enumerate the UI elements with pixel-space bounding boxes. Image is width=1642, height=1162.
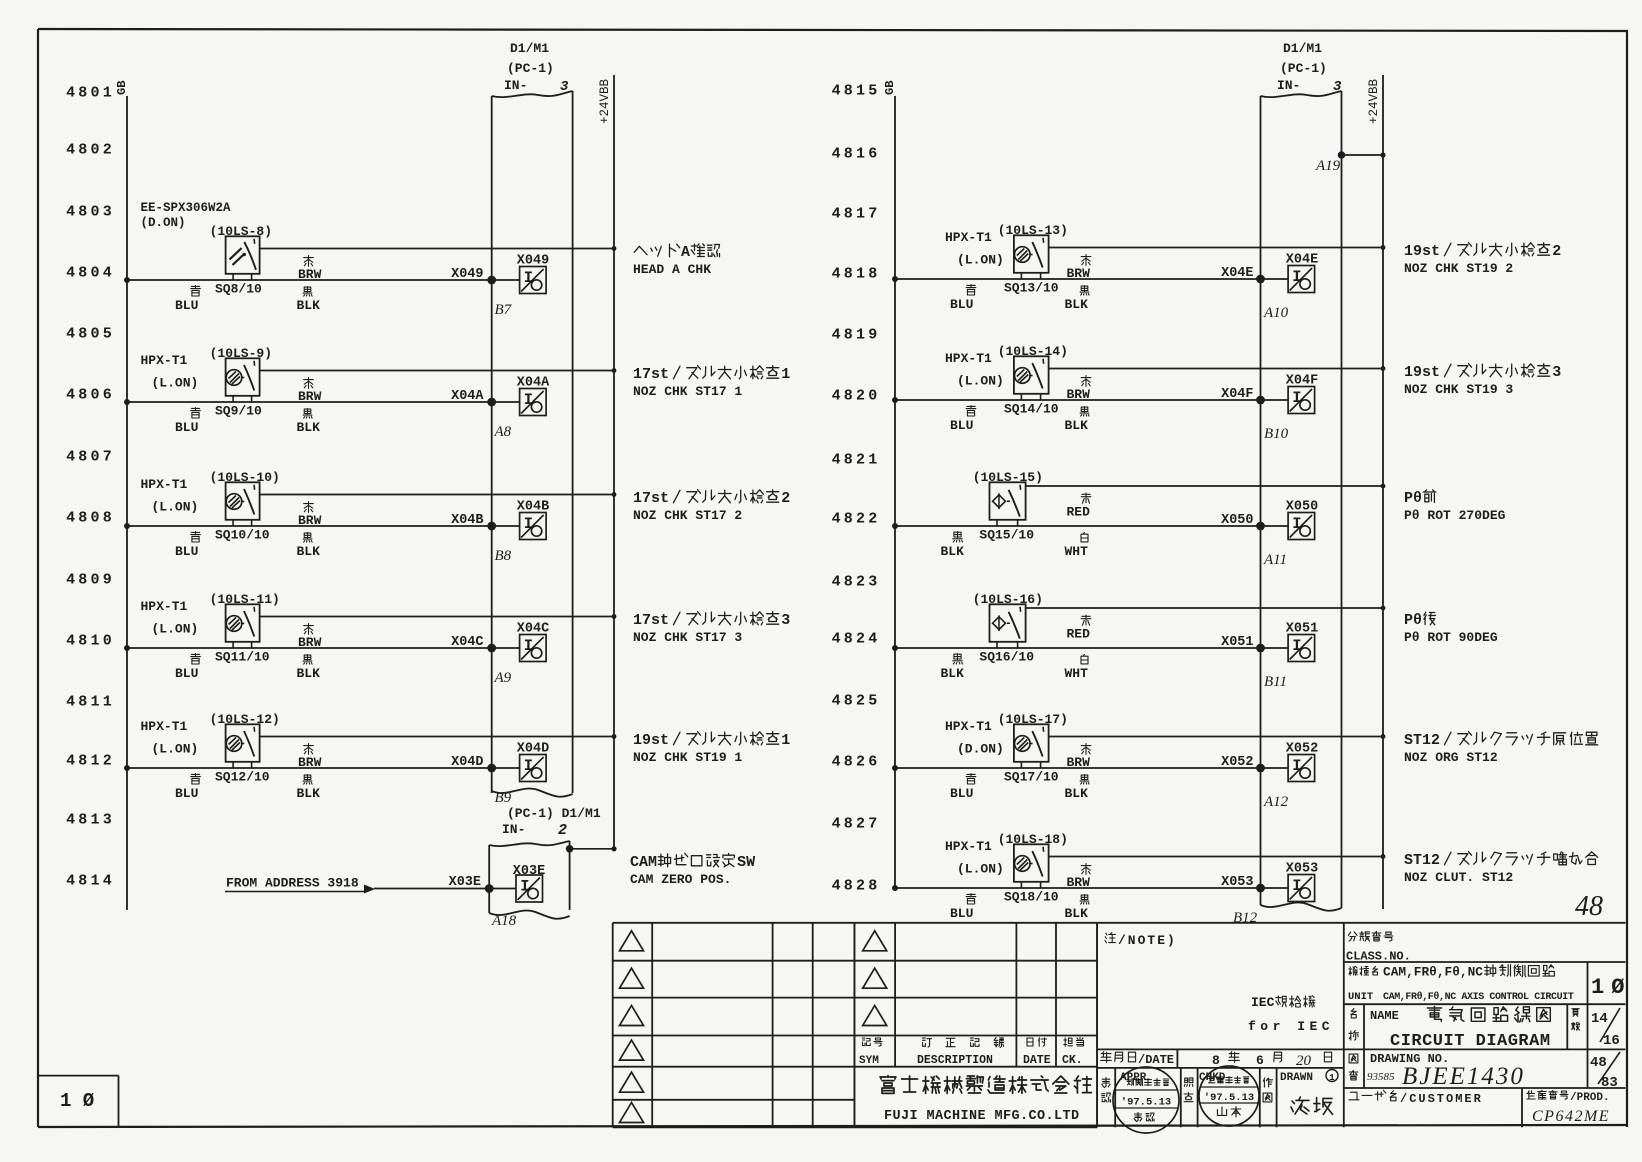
svg-text:HPX-T1: HPX-T1 [141,353,188,368]
label sensor model HPX-T1 [141,353,199,391]
label SQ16/10 [979,650,1034,665]
svg-text:3: 3 [1333,79,1342,95]
approval stamp CHKD '97.5.13 山本 [1199,1066,1259,1126]
svg-text:4812: 4812 [66,753,115,770]
svg-text:(L.ON): (L.ON) [152,376,199,391]
svg-text:4805: 4805 [66,326,115,343]
label wire colour BRW (top) [298,378,322,404]
label I/O X051 [1286,622,1318,637]
note box 注/NOTE [1097,923,1344,1128]
svg-text:WHT: WHT [1065,666,1089,681]
svg-text:(D.ON): (D.ON) [141,216,186,230]
svg-text:4819: 4819 [832,327,881,344]
svg-text:(10LS-11): (10LS-11) [210,592,280,607]
svg-text:/PROD.: /PROD. [1570,1092,1610,1104]
label SQ11/10 [215,650,270,665]
label function: NOZ CHK ST17 1 [633,366,790,399]
pin A12 [1263,794,1289,810]
label (10LS-13) [998,223,1068,238]
wire: rung 4818 (X04E) [892,275,1288,284]
svg-text:4827: 4827 [832,816,881,833]
svg-text:NOZ CHK ST17 1: NOZ CHK ST17 1 [633,384,742,399]
pin B10 [1264,426,1289,442]
label I/O X03E [513,864,545,879]
node: line number 4804 [66,265,115,282]
customer box ユーザ名/CUSTOMER | 生産番号/PROD. CP642ME [1349,1088,1610,1127]
svg-text:CP642ME: CP642ME [1532,1108,1610,1125]
label I/O X04B [517,500,549,515]
label I/O X04C [517,622,549,637]
wire: rung 4826 (X052) [892,764,1288,773]
I/O point X04D [520,755,547,782]
label wire colour BLU (bus side) [175,286,200,313]
label wire X04C [451,635,483,650]
svg-text:16: 16 [1603,1033,1620,1049]
label IEC規格機 for IEC [1248,995,1334,1034]
connector label (PC-1) D1/M1 IN- 2 [502,806,601,839]
pin A19 [1315,158,1341,174]
sensor SQ14/10 (10LS-14) (HPX-T1) [1014,356,1049,400]
svg-text:NOZ CLUT. ST12: NOZ CLUT. ST12 [1404,870,1513,885]
node: line number 4810 [66,633,115,650]
label sensor model HPX-T1 [945,719,1004,757]
svg-text:CAM ZERO POS.: CAM ZERO POS. [630,872,731,887]
svg-text:CIRCUIT DIAGRAM: CIRCUIT DIAGRAM [1390,1032,1551,1051]
svg-text:NOZ CHK ST17 3: NOZ CHK ST17 3 [633,630,742,645]
wire: rung 4824 (X051) [892,644,1288,653]
node: line number 4803 [66,204,115,221]
I/O point X049 [520,267,547,294]
pin A11 [1263,552,1287,568]
label wire colour BLK (bottom) [297,409,321,435]
svg-text:X053: X053 [1221,875,1253,890]
label wire colour WHT (bottom) [1065,533,1089,560]
wire: SQ14/10 output to +24VBB rail [1049,366,1386,371]
connector label D1/M1 (PC-1) IN- 3 (left) [504,41,569,95]
approval stamp APPR '97.5.13 [1113,1067,1179,1133]
svg-text:BLU: BLU [175,298,198,313]
svg-text:X053: X053 [1286,862,1318,877]
svg-text:'97.5.13: '97.5.13 [1204,1092,1254,1104]
wire: rung 4810 (X04C) [124,644,520,653]
svg-text:B8: B8 [495,548,512,564]
node: line number 4813 [66,812,115,829]
label sensor model HPX-T1 [141,477,199,515]
svg-text:A9: A9 [494,670,512,686]
svg-text:3: 3 [1552,364,1561,381]
svg-text:SQ12/10: SQ12/10 [215,770,270,785]
svg-text:X052: X052 [1286,742,1318,757]
I/O point X052 [1288,755,1315,782]
svg-text:19st: 19st [633,732,669,749]
node: line number 4825 [832,693,881,710]
label sensor model HPX-T1 [141,599,199,637]
sensor SQ15/10 (10LS-15) (prox switch) [990,482,1026,526]
svg-text:A11: A11 [1263,552,1287,568]
label wire colour BRW (top) [1067,255,1091,281]
svg-text:14: 14 [1591,1011,1608,1027]
node: line number 4817 [832,206,881,223]
wire: left GB bus [126,96,128,910]
svg-text:RED: RED [1067,627,1091,642]
svg-text:4825: 4825 [832,693,881,710]
wire: SQ15/10 output to +24VBB rail [1026,484,1386,489]
svg-text:4817: 4817 [832,206,881,223]
svg-text:X04A: X04A [451,389,484,404]
label sensor model HPX-T1 [141,719,199,757]
svg-text:B9: B9 [495,790,512,806]
svg-text:(L.ON): (L.ON) [152,622,199,637]
label wire colour BRW (top) [1067,376,1091,402]
svg-text:A12: A12 [1263,794,1289,810]
svg-text:4814: 4814 [66,873,115,890]
I/O point X051 [1288,635,1315,662]
node: line number 4806 [66,387,115,404]
svg-text:(D.ON): (D.ON) [957,742,1004,757]
svg-text:BRW: BRW [298,635,322,650]
svg-text:BRW: BRW [1067,387,1091,402]
label wire X049 [451,267,483,282]
label wire colour BLK (bus side) [941,532,965,559]
svg-text:4804: 4804 [66,265,115,282]
wire: SQ8/10 output to +24VBB rail [260,246,617,251]
label wire colour BLU (bus side) [950,406,976,433]
svg-text:4803: 4803 [66,204,115,221]
wire: A19 feed, +24VBB to connector right edge [1338,151,1386,159]
node: line number 4821 [832,452,881,469]
svg-text:(L.ON): (L.ON) [152,500,199,515]
label wire colour BLU (bus side) [175,654,200,681]
svg-text:48: 48 [1575,891,1603,922]
svg-text:+24VBB: +24VBB [598,78,612,124]
svg-text:GB: GB [883,81,897,95]
svg-text:SQ15/10: SQ15/10 [979,528,1034,543]
wire: rung 4822 (X050) [892,522,1288,531]
svg-text:NAME: NAME [1370,1009,1399,1023]
svg-text:X04E: X04E [1286,253,1318,268]
svg-text:CAM,FRθ,Fθ,NC: CAM,FRθ,Fθ,NC [1383,965,1483,980]
svg-text:BLU: BLU [175,420,198,435]
connector D1/M1 (PC-1) IN-2 lower-left column body [489,841,569,919]
node: line number 4822 [832,511,881,528]
svg-text:DESCRIPTION: DESCRIPTION [917,1054,993,1067]
label function: NOZ CHK ST19 2 [1404,243,1561,276]
label sensor model HPX-T1 [945,351,1004,389]
label SQ8/10 [215,282,262,297]
svg-text:3: 3 [781,612,790,629]
svg-text:BLK: BLK [297,666,321,681]
svg-text:4822: 4822 [832,511,881,528]
svg-text:BRW: BRW [298,513,322,528]
label function: NOZ ORG ST12 [1404,732,1598,765]
label sensor model EE-SPX306W2A [141,201,232,230]
svg-text:BLK: BLK [941,666,965,681]
svg-text:SW: SW [737,854,755,871]
svg-text:NOZ CHK ST17 2: NOZ CHK ST17 2 [633,508,742,523]
wire: rung 4804 (X049) [124,276,520,285]
label wire colour BLU (bus side) [950,774,976,801]
node: line number 4812 [66,753,115,770]
label I/O X049 [517,254,549,269]
node: line number 4828 [832,878,881,895]
svg-text:4824: 4824 [832,631,881,648]
svg-text:(10LS-12): (10LS-12) [210,712,280,727]
svg-text:4816: 4816 [832,146,881,163]
label wire X050 [1221,513,1253,528]
revision triangles left column [620,931,644,1123]
sensor SQ17/10 (10LS-17) (HPX-T1) [1014,724,1049,768]
svg-text:BLK: BLK [297,786,321,801]
svg-text:8: 8 [1212,1053,1220,1068]
svg-text:17st: 17st [633,612,669,629]
svg-text:(PC-1) D1/M1: (PC-1) D1/M1 [507,806,601,821]
svg-text:20: 20 [1296,1053,1312,1069]
svg-text:X051: X051 [1221,635,1253,650]
svg-text:HPX-T1: HPX-T1 [945,351,992,366]
label function: Pθ ROT 90DEG [1404,612,1498,645]
label wire colour WHT (bottom) [1065,655,1089,682]
wire: +24VBB feed to lower connector, node at (569.6,849) [566,845,617,853]
svg-text:CK.: CK. [1062,1054,1083,1067]
label I/O X04F [1286,374,1318,389]
svg-text:HPX-T1: HPX-T1 [141,477,188,492]
svg-text:Pθ: Pθ [1404,490,1422,507]
label sensor model HPX-T1 [945,230,1004,268]
label wire X04A [451,389,484,404]
approval row 承認/照査/作図 + stamps [1102,1068,1338,1127]
svg-text:WHT: WHT [1065,544,1089,559]
node: line number 4816 [832,146,881,163]
wire: SQ16/10 output to +24VBB rail [1026,606,1386,611]
svg-text:B7: B7 [495,302,513,318]
label (10LS-8) [210,224,272,239]
svg-text:48: 48 [1590,1055,1607,1071]
pin B7 [495,302,513,318]
pin A10 [1263,305,1289,321]
label wire colour RED (top) [1067,493,1091,519]
label FROM ADDRESS 3918 with arrow [225,876,375,894]
svg-text:1: 1 [781,366,790,383]
label wire colour BLK (bottom) [297,287,321,313]
svg-text:SQ9/10: SQ9/10 [215,404,262,419]
label wire colour BLK (bottom) [297,775,321,802]
label I/O X053 [1286,862,1318,877]
svg-text:BLK: BLK [1065,297,1089,312]
svg-text:X049: X049 [451,267,483,282]
label wire X03E [449,875,481,890]
wire: SQ10/10 output to +24VBB rail [260,492,617,497]
svg-text:3: 3 [560,79,569,95]
svg-text:SQ17/10: SQ17/10 [1004,770,1059,785]
svg-text:4806: 4806 [66,387,115,404]
label SQ15/10 [979,528,1034,543]
label wire colour BLK (bottom) [1065,895,1090,922]
svg-text:BRW: BRW [1067,875,1091,890]
svg-text:DRAWN: DRAWN [1280,1072,1313,1084]
svg-text:(L.ON): (L.ON) [957,862,1004,877]
handwritten sheet number 48 [1575,891,1603,922]
node: line number 4824 [832,631,881,648]
svg-text:A8: A8 [494,424,512,440]
svg-text:(10LS-15): (10LS-15) [973,470,1043,485]
I/O point X04B [520,513,547,540]
pin B8 [495,548,512,564]
label wire colour BRW (top) [298,624,322,650]
svg-text:4809: 4809 [66,572,115,589]
svg-text:(10LS-14): (10LS-14) [998,344,1068,359]
svg-text:BLK: BLK [297,544,321,559]
label wire colour BLU (bus side) [175,532,200,559]
svg-text:BLU: BLU [950,297,973,312]
svg-text:A10: A10 [1263,305,1289,321]
label wire colour BRW (top) [1067,744,1091,770]
I/O point X03E [516,875,543,902]
label (10LS-17) [998,712,1068,727]
svg-text:X050: X050 [1221,513,1253,528]
svg-text:(10LS-13): (10LS-13) [998,223,1068,238]
node: line number 4818 [832,266,881,283]
svg-text:2: 2 [781,490,790,507]
svg-text:(PC-1): (PC-1) [1280,61,1327,76]
node: line number 4809 [66,572,115,589]
node GB label (left) [115,81,129,95]
label function: NOZ CHK ST17 3 [633,612,790,645]
label SQ12/10 [215,770,270,785]
unit box 機種名 CAM,FR0,F0,NC axis control circuit | sheet 10 [1344,962,1632,1004]
node: line number 4815 [832,83,881,100]
pin A8 [494,424,512,440]
node: line number 4823 [832,574,881,591]
svg-text:CLASS.NO.: CLASS.NO. [1346,950,1411,964]
svg-text:D1/M1: D1/M1 [510,41,549,56]
svg-text:DATE: DATE [1023,1054,1051,1067]
wire: rung 4808 (X04B) [124,522,520,531]
label SQ9/10 [215,404,262,419]
label function: CAM ZERO POS. [630,853,755,887]
label wire colour BLK (bottom) [1065,407,1090,433]
node: line number 4827 [832,816,881,833]
svg-text:UNIT: UNIT [1348,991,1373,1003]
name box 名称 NAME 電気回路線図 CIRCUIT DIAGRAM | page 14/16 [1344,1004,1626,1051]
connector D1/M1 (PC-1) IN-3 left column body [492,91,573,797]
svg-text:4828: 4828 [832,878,881,895]
label SQ13/10 [1004,281,1059,296]
svg-text:B11: B11 [1264,674,1287,690]
svg-text:BLU: BLU [175,786,198,801]
label wire colour BRW (top) [298,502,322,528]
svg-text:X04C: X04C [517,622,549,637]
label (10LS-14) [998,344,1068,359]
svg-text:4810: 4810 [66,633,115,650]
label wire X04B [451,513,483,528]
label wire colour BLK (bottom) [297,533,321,560]
label wire colour RED (top) [1067,615,1091,641]
svg-text:IN-: IN- [1277,78,1300,93]
I/O point X04F [1288,387,1315,414]
svg-text:X04D: X04D [517,742,549,757]
title block: revision table left [613,923,855,1128]
I/O point X04C [520,635,547,662]
svg-text:(10LS-9): (10LS-9) [210,346,272,361]
svg-text:(L.ON): (L.ON) [152,742,199,757]
page number box 10 [38,1076,119,1128]
wire: rung 4820 (X04F) [892,396,1288,405]
svg-text:1Ø: 1Ø [1591,975,1631,1000]
svg-text:/NOTE): /NOTE) [1118,933,1177,948]
svg-text:(L.ON): (L.ON) [957,374,1004,389]
label SQ17/10 [1004,770,1059,785]
label wire colour BLK (bottom) [1065,286,1090,312]
svg-text:4823: 4823 [832,574,881,591]
svg-text:EE-SPX306W2A: EE-SPX306W2A [141,201,232,215]
drawing no. box 図番 DRAWING NO. BJEE1430 | 48/83 [1344,1049,1626,1091]
label sensor model HPX-T1 [945,839,1004,877]
label wire colour BRW (top) [298,744,322,770]
node: line number 4811 [66,694,115,711]
svg-text:NOZ CHK ST19 1: NOZ CHK ST19 1 [633,750,742,765]
svg-text:HPX-T1: HPX-T1 [141,599,188,614]
svg-text:X04D: X04D [451,755,483,770]
svg-text:2: 2 [1552,243,1561,260]
connector D1/M1 (PC-1) IN-3 right column body [1261,91,1342,911]
svg-text:4811: 4811 [66,694,115,711]
sensor SQ9/10 (10LS-9) (HPX-T1) [226,358,260,402]
label wire colour BLU (bus side) [950,285,976,312]
svg-text:HPX-T1: HPX-T1 [945,719,992,734]
wire: rung 4806 (X04A) [124,398,520,407]
svg-text:(10LS-10): (10LS-10) [210,470,280,485]
pin A18 [491,913,517,929]
wire: rung 4812 (X04D) [124,764,520,773]
svg-text:BLK: BLK [297,420,321,435]
power rail +24VBB (right) [1367,75,1383,909]
svg-text:BLK: BLK [297,298,321,313]
svg-text:BRW: BRW [298,389,322,404]
svg-text:SQ13/10: SQ13/10 [1004,281,1059,296]
svg-text:SQ8/10: SQ8/10 [215,282,262,297]
svg-text:/DATE: /DATE [1138,1053,1174,1067]
svg-text:RED: RED [1067,505,1091,520]
class no. box 分類番号/CLASS.NO [1344,923,1626,1128]
svg-text:X050: X050 [1286,500,1318,515]
pin B12 [1233,910,1258,926]
label wire colour BLU (bus side) [175,774,200,801]
svg-text:(L.ON): (L.ON) [957,253,1004,268]
svg-text:NOZ ORG ST12: NOZ ORG ST12 [1404,750,1498,765]
svg-text:BLU: BLU [950,418,973,433]
wire: rung 4814 FROM ADDRESS 3918 [374,884,516,893]
label wire colour BRW (top) [298,256,322,282]
wire: SQ12/10 output to +24VBB rail [260,734,617,739]
svg-text:SQ11/10: SQ11/10 [215,650,270,665]
svg-text:X04B: X04B [517,500,549,515]
sensor SQ8/10 (10LS-8) (EE-SPX306W2A) [226,236,260,280]
svg-text:SQ18/10: SQ18/10 [1004,890,1059,905]
svg-text:X04A: X04A [517,376,550,391]
svg-text:ST12: ST12 [1404,732,1440,749]
svg-text:X049: X049 [517,254,549,269]
svg-text:NOZ CHK ST19 2: NOZ CHK ST19 2 [1404,261,1513,276]
svg-text:4818: 4818 [832,266,881,283]
svg-text:17st: 17st [633,366,669,383]
svg-text:B10: B10 [1264,426,1289,442]
wire: SQ13/10 output to +24VBB rail [1049,245,1386,250]
svg-text:SQ16/10: SQ16/10 [979,650,1034,665]
svg-text:CAM,FRθ,Fθ,NC AXIS CONTROL CIR: CAM,FRθ,Fθ,NC AXIS CONTROL CIRCUIT [1383,991,1574,1003]
label function: NOZ CHK ST19 3 [1404,364,1561,397]
svg-text:2: 2 [558,822,567,839]
svg-text:19st: 19st [1404,364,1440,381]
